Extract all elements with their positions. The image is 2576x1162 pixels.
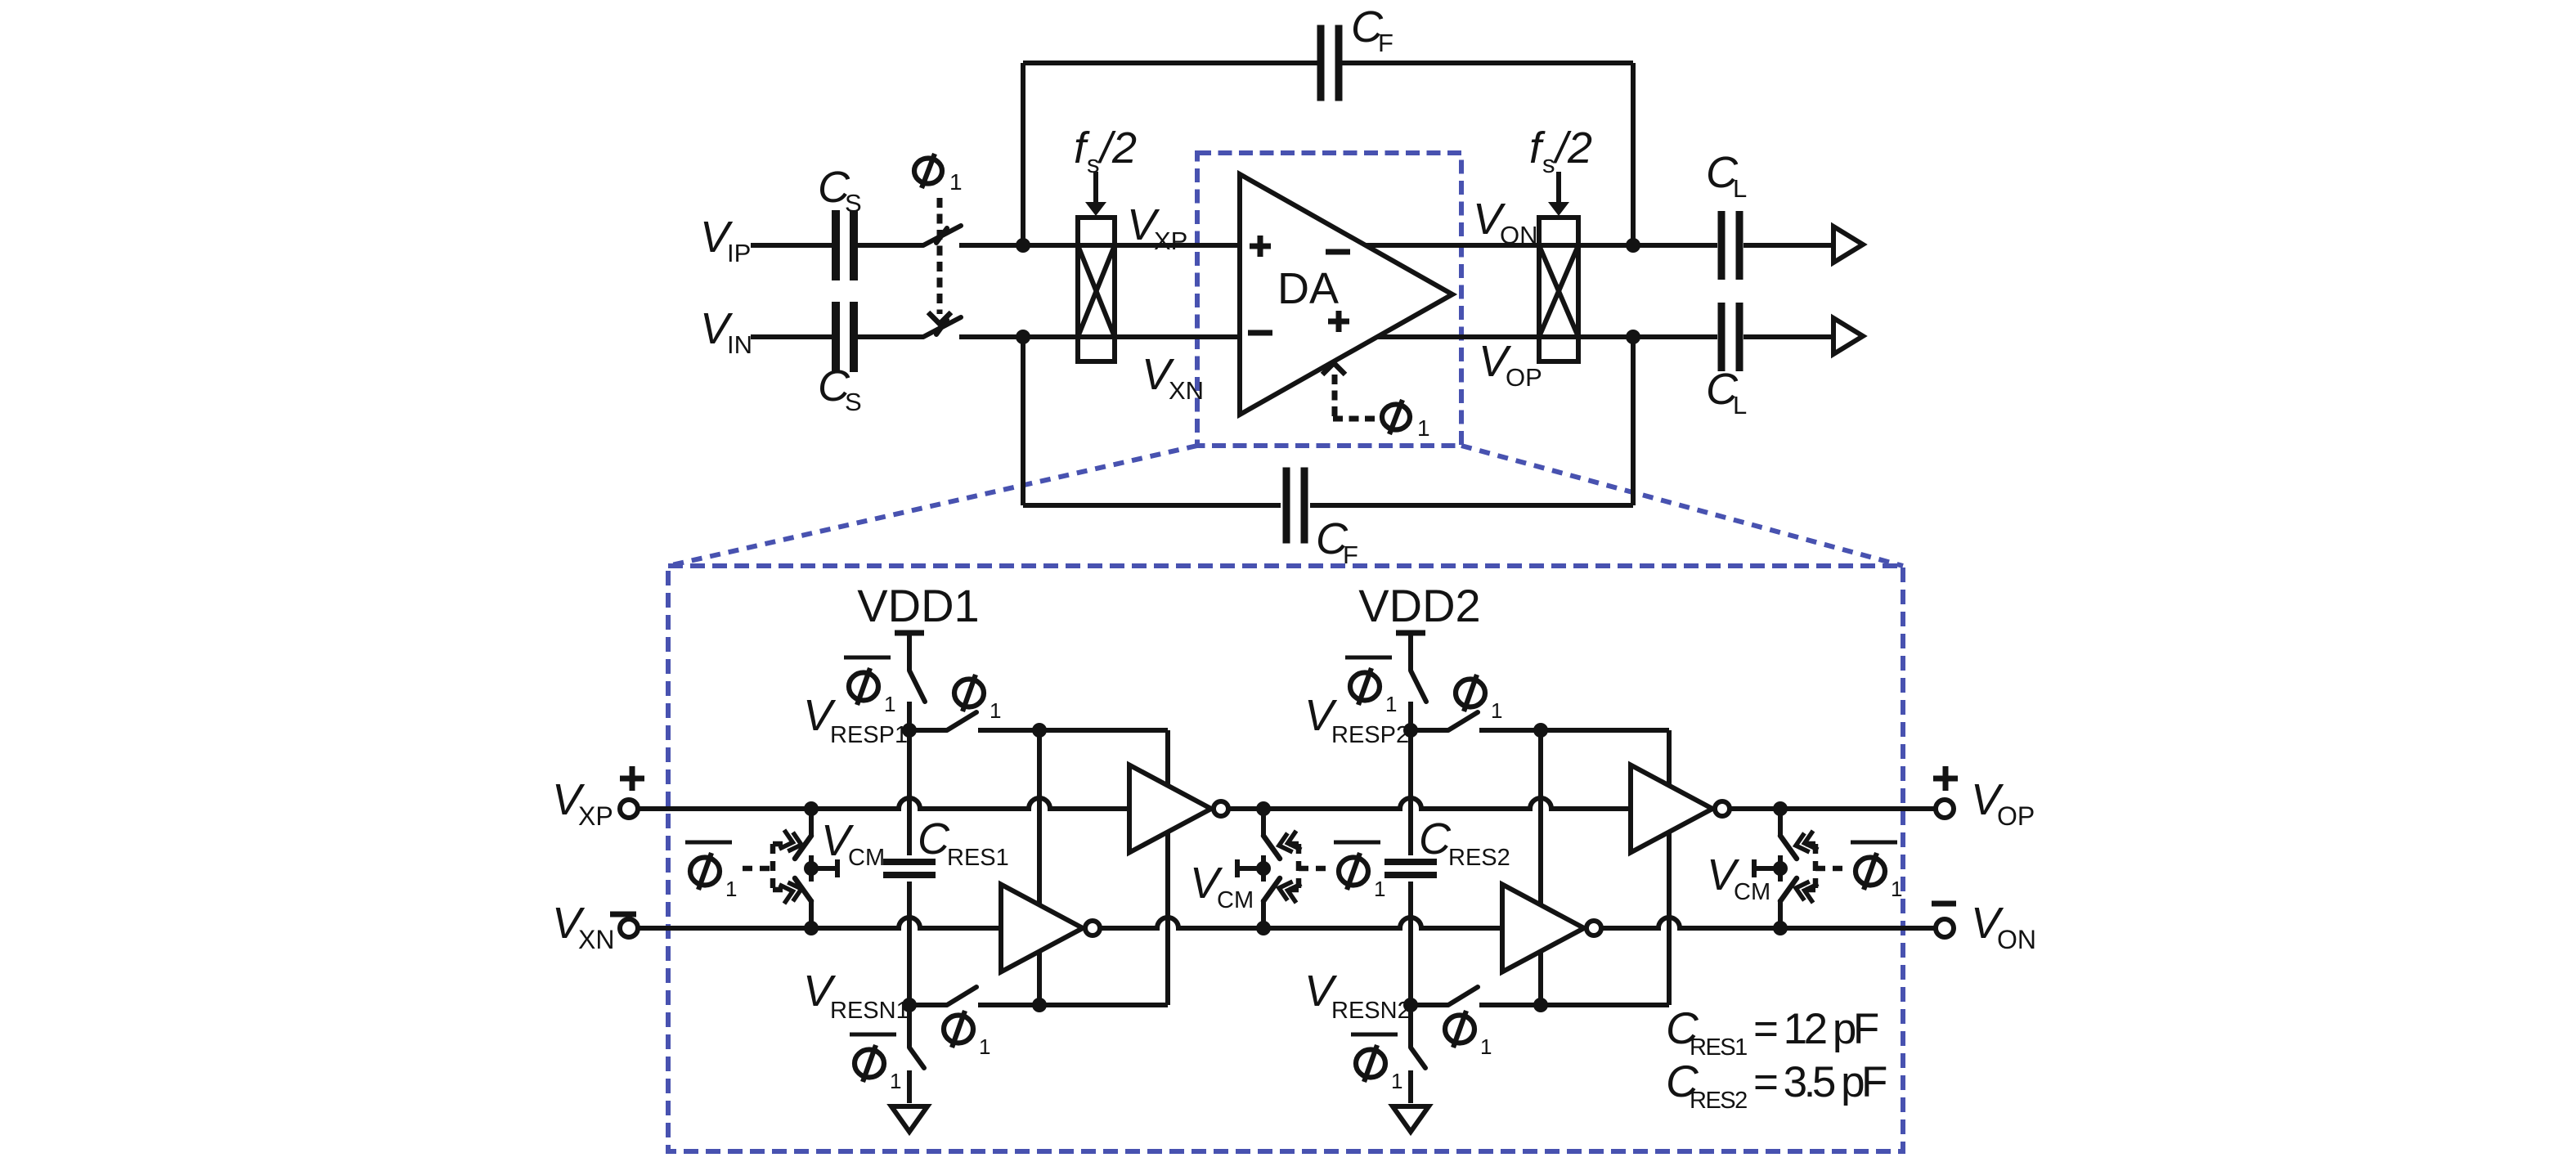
clock PHI1 arrow into DA: [1322, 363, 1379, 419]
switch S1 bottom (VIN sampling): [923, 317, 961, 337]
label PHI1bar (VDD2 switch): [1345, 657, 1397, 716]
chopper M1 (input): [1078, 218, 1115, 361]
svg-text:1: 1: [890, 1069, 901, 1093]
label fs/2 (right): [1529, 123, 1592, 178]
switch pair VCM reset (inter-stage): [1256, 801, 1280, 935]
label PHI1 (VRESN2 switch): [1445, 1011, 1492, 1059]
label PHI1 (VRESP2 switch): [1456, 675, 1502, 723]
wire mid rail P (stage1 out): [1228, 798, 1631, 809]
wire CF top-left vertical: [1021, 63, 1025, 245]
label VIN: [700, 304, 752, 359]
label CS (bottom): [818, 361, 862, 416]
capacitor CF (top): [1321, 25, 1339, 101]
wire column CRES2 to VRESN2: [1408, 882, 1413, 1005]
label PHI1 (input switches): [914, 154, 963, 195]
svg-text:1: 1: [884, 692, 895, 716]
svg-text:S: S: [845, 388, 862, 416]
label + (VOP): [1933, 766, 1958, 791]
wire CF top-right vertical: [1631, 63, 1636, 245]
capacitor CS (bottom): [836, 302, 854, 372]
clock PHI1bar bracket (input): [743, 830, 804, 904]
svg-text:1: 1: [1374, 877, 1385, 901]
wire VXP node rail: [959, 243, 1717, 248]
label VXN (top): [1142, 350, 1204, 405]
wire column VDD1 to CRES1: [907, 730, 912, 855]
svg-text:1: 1: [1891, 877, 1902, 901]
wire VCM tap (inter-stage): [1237, 859, 1263, 877]
node VRESP1: [902, 723, 917, 738]
wire VIN input: [751, 334, 832, 339]
svg-text:1: 1: [1417, 415, 1430, 441]
label PHI1 (VRESN1 switch): [944, 1011, 990, 1059]
svg-text:CM: CM: [1217, 887, 1254, 913]
capacitor CL (bottom): [1721, 303, 1739, 371]
ground (stage 1): [891, 1106, 927, 1132]
label VRESN1: [803, 967, 909, 1024]
svg-text:1: 1: [949, 169, 963, 195]
power VDD1 symbol: [857, 580, 979, 671]
label VOP (lower): [1971, 775, 2035, 831]
callout expansion line (right): [1461, 446, 1903, 566]
wire VRESP1 rail: [909, 728, 1168, 733]
switch PHI1 (VRESP1): [947, 712, 976, 730]
wire column CRES1 to VRESN1: [907, 882, 912, 1005]
wire CF bottom-right vertical: [1631, 337, 1636, 505]
svg-text:CM: CM: [848, 845, 885, 871]
label - (DA in-): [1248, 330, 1272, 336]
node D (VOP/CF junction): [1626, 330, 1640, 344]
label VXP (top): [1127, 200, 1187, 255]
switch PHI1 (VRESN2): [1448, 987, 1478, 1005]
svg-text:F: F: [1378, 29, 1393, 57]
arrow output (top): [1833, 227, 1863, 262]
clock PHI1 dashed control line: [928, 198, 951, 324]
label PHI1 (VRESP1 switch): [954, 675, 1001, 723]
value label CRES2 = 3.5 pF: [1666, 1056, 1887, 1114]
svg-text:RES2: RES2: [1448, 845, 1510, 871]
svg-text:RES1: RES1: [947, 845, 1009, 871]
capacitor CS (top): [836, 210, 854, 280]
svg-text:OP: OP: [1506, 363, 1542, 392]
node C (VON/CF junction): [1626, 238, 1640, 253]
label CF (top): [1351, 2, 1393, 57]
arrow fs/2 (left): [1085, 172, 1106, 216]
label CS (top): [818, 163, 862, 218]
label PHI1bar (ground switch 2): [1351, 1034, 1402, 1093]
label PHI1 (DA): [1382, 400, 1430, 441]
svg-text:1: 1: [1491, 698, 1502, 723]
inverter A4 (bottom, stage 2): [1502, 885, 1601, 972]
capacitor CRES2: [1384, 862, 1437, 875]
label CRES1: [918, 814, 1009, 871]
svg-text:1: 1: [1385, 692, 1397, 716]
node VRESN1 rect junction: [1032, 998, 1047, 1012]
wire VXP rail (lower): [638, 798, 1129, 809]
svg-text:CM: CM: [1734, 879, 1770, 905]
svg-text:1: 1: [1480, 1034, 1492, 1059]
svg-text:= 12 pF: = 12 pF: [1753, 1005, 1878, 1053]
callout expansion line (left): [668, 446, 1197, 566]
svg-text:s: s: [1542, 150, 1555, 178]
capacitor CRES1: [883, 862, 936, 875]
label DA: [1277, 264, 1339, 313]
node VRESN2 rect junction: [1533, 998, 1548, 1012]
label VOP: [1479, 337, 1542, 392]
wire VIP input: [751, 243, 832, 248]
wire inverter supply right (stage 1): [1165, 730, 1170, 1005]
svg-text:OP: OP: [1997, 801, 2035, 831]
power VDD2 symbol: [1358, 580, 1480, 671]
capacitor CL (top): [1721, 211, 1739, 280]
wire inverter supply left (stage 1): [1037, 730, 1042, 1005]
arrow fs/2 (right): [1548, 172, 1569, 216]
label + (DA in+): [1250, 236, 1271, 257]
terminal VXN: [620, 919, 638, 937]
terminal VON: [1936, 919, 1954, 937]
ground (stage 2): [1393, 1106, 1429, 1132]
svg-text:XP: XP: [578, 801, 613, 831]
svg-text:XN: XN: [578, 925, 614, 954]
node A (VIP/CF junction): [1016, 238, 1030, 253]
svg-text:1: 1: [1391, 1069, 1402, 1093]
label VON (lower): [1971, 899, 2036, 954]
svg-text:F: F: [1343, 541, 1358, 569]
inverter A3 (top, stage 2): [1631, 765, 1730, 853]
label CL (bottom): [1706, 365, 1747, 419]
switch S1 top (VIP sampling): [923, 226, 961, 245]
label + (VXP): [620, 766, 644, 791]
svg-text:IN: IN: [727, 330, 752, 359]
capacitor CF (bottom): [1286, 468, 1304, 544]
svg-text:L: L: [1733, 391, 1747, 419]
svg-text:RES2: RES2: [1690, 1088, 1747, 1114]
label PHI1bar (output VCM): [1851, 842, 1902, 901]
wire VCM tap (output): [1754, 859, 1780, 877]
label VRESP1: [803, 691, 908, 748]
label fs/2 (left): [1074, 123, 1137, 178]
clock PHI1bar bracket (output): [1793, 831, 1846, 903]
svg-text:ON: ON: [1500, 221, 1538, 249]
label VCM (inter-stage): [1190, 859, 1254, 913]
svg-text:C: C: [1419, 814, 1452, 864]
inverter A1 (top, stage 1): [1129, 765, 1228, 853]
svg-text:S: S: [845, 189, 862, 218]
label - (VXN): [610, 912, 636, 917]
wire VIP to switch: [858, 243, 923, 248]
svg-text:RESP1: RESP1: [830, 722, 908, 748]
label CRES2: [1419, 814, 1510, 871]
wire VXN rail (lower): [638, 917, 1001, 928]
wire mid rail N (stage1 out): [1100, 917, 1502, 928]
svg-text:VDD2: VDD2: [1358, 580, 1480, 631]
svg-text:/2: /2: [1097, 123, 1137, 173]
switch pair VCM reset (output): [1773, 801, 1797, 935]
wire VXN node rail: [959, 334, 1717, 339]
wire CF bottom-left vertical: [1021, 337, 1025, 505]
switch PHI1 (VRESN1): [947, 987, 976, 1005]
terminal VOP: [1936, 800, 1954, 818]
clock PHI1bar bracket (inter-stage): [1277, 831, 1329, 903]
label CL (top): [1706, 148, 1747, 203]
switch PHI1 (VRESP2): [1448, 712, 1478, 730]
svg-text:RESN1: RESN1: [830, 998, 909, 1024]
svg-text:= 3.5 pF: = 3.5 pF: [1753, 1058, 1887, 1106]
svg-text:VDD1: VDD1: [857, 580, 979, 631]
label CF (bottom): [1316, 514, 1358, 569]
svg-text:RESP2: RESP2: [1331, 722, 1409, 748]
svg-text:RESN2: RESN2: [1331, 998, 1411, 1024]
label VXN (lower): [552, 899, 614, 954]
label - (VON): [1932, 901, 1956, 907]
label PHI1bar (input VCM): [685, 842, 737, 901]
svg-text:ON: ON: [1997, 925, 2036, 954]
DA dashed callout box (top): [1197, 153, 1461, 446]
terminal VXP: [620, 800, 638, 818]
node VRESP1 rect junction: [1032, 723, 1047, 738]
wire VRESN1 rail: [909, 1003, 1168, 1007]
inverter A2 (bottom, stage 1): [1001, 885, 1100, 972]
wire VON rail (stage2 out): [1601, 917, 1936, 928]
chopper M2 (output): [1539, 218, 1578, 361]
wire VOP rail (stage2 out): [1730, 806, 1935, 811]
svg-text:XN: XN: [1169, 376, 1204, 405]
svg-text:/2: /2: [1552, 123, 1592, 173]
wire inverter supply left (stage 2): [1538, 730, 1543, 1005]
svg-text:1: 1: [725, 877, 737, 901]
label - (DA out-): [1326, 249, 1350, 255]
wire VRESN2 rail: [1411, 1003, 1669, 1007]
wire CF top horizontal: [1023, 61, 1633, 65]
label VRESN2: [1304, 967, 1411, 1024]
svg-text:1: 1: [979, 1034, 990, 1059]
svg-text:IP: IP: [727, 239, 751, 267]
op-amp DA: [1240, 174, 1452, 415]
node VRESP2 rect junction: [1533, 723, 1548, 738]
switch PHI1bar (VRESN2 to ground): [1411, 1005, 1425, 1103]
wire inverter supply right (stage 2): [1667, 730, 1672, 1005]
wire VRESP2 rail: [1411, 728, 1669, 733]
label VON: [1473, 195, 1538, 249]
label VXP (lower): [552, 775, 613, 831]
svg-text:1: 1: [990, 698, 1001, 723]
svg-text:L: L: [1733, 174, 1747, 203]
label VIP: [700, 213, 751, 267]
wire VOP output: [1744, 334, 1833, 339]
wire VIN to switch: [858, 334, 923, 339]
svg-text:XP: XP: [1154, 227, 1187, 255]
label PHI1bar (VDD1 switch): [844, 657, 895, 716]
label VCM (input): [821, 816, 885, 871]
node VRESN2: [1403, 998, 1418, 1012]
node B (VIN/CF junction): [1016, 330, 1030, 344]
amplifier core dashed box (bottom): [668, 566, 1903, 1151]
label PHI1bar (ground switch 1): [850, 1034, 901, 1093]
svg-text:C: C: [918, 814, 950, 864]
switch PHI1bar (VDD2): [1411, 671, 1426, 730]
label VRESP2: [1304, 691, 1409, 748]
wire column VDD2 to CRES2: [1408, 730, 1413, 855]
wire VCM tap (input): [811, 859, 837, 877]
label VCM (output): [1707, 850, 1770, 905]
arrow output (bottom): [1833, 318, 1863, 354]
wire VON output: [1744, 243, 1833, 248]
value label CRES1 = 12 pF: [1666, 1003, 1878, 1061]
switch pair VCM reset (input): [795, 801, 819, 935]
svg-text:DA: DA: [1277, 264, 1339, 313]
label PHI1bar (inter-stage VCM): [1334, 842, 1385, 901]
node VRESP2: [1403, 723, 1418, 738]
switch PHI1bar (VDD1): [909, 671, 925, 730]
node VRESN1: [902, 998, 917, 1012]
label + (DA out+): [1328, 311, 1349, 332]
wire CF bottom horizontal: [1023, 503, 1633, 508]
switch PHI1bar (VRESN1 to ground): [909, 1005, 924, 1103]
